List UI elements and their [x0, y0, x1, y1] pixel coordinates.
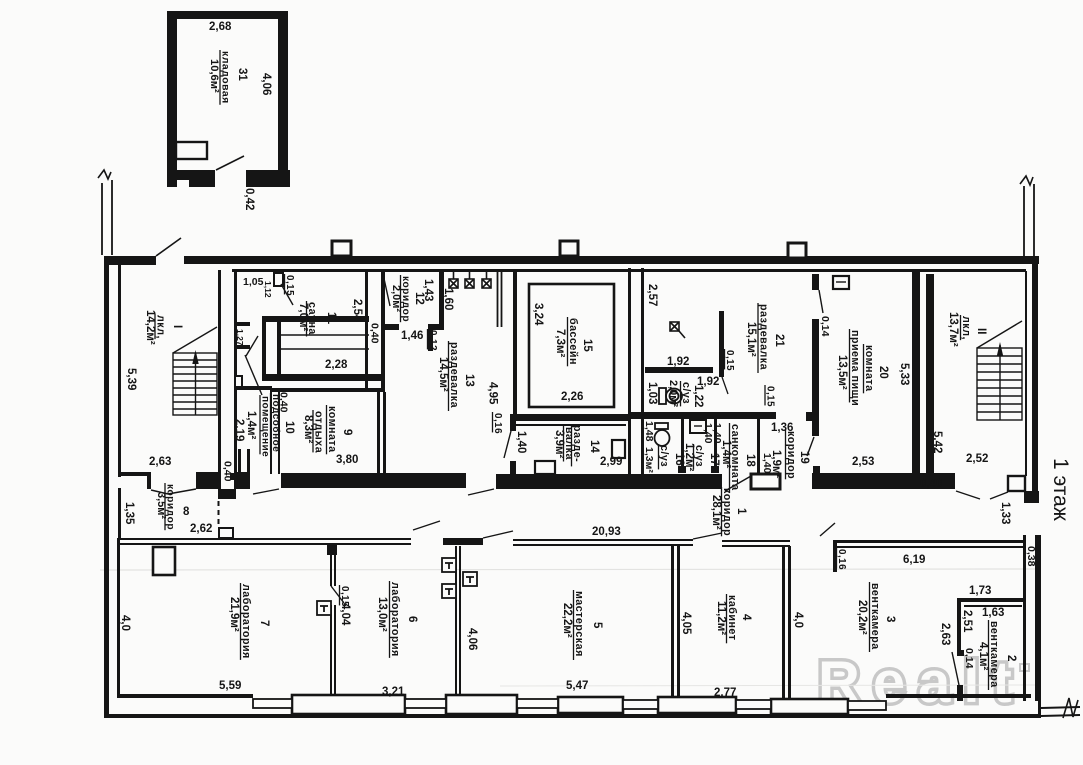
svg-text:0,12: 0,12 [427, 330, 438, 351]
svg-text:1,46: 1,46 [401, 330, 423, 342]
svg-text:6,19: 6,19 [903, 554, 925, 566]
svg-text:кладовая: кладовая [220, 51, 231, 104]
right wall entrance pier [1008, 476, 1025, 491]
sauna bottom thick wall [262, 374, 383, 381]
sink boxes [442, 558, 456, 572]
right wall corner block at entrance [1024, 491, 1039, 503]
svg-text:с/уз: с/уз [693, 445, 705, 467]
svg-text:17: 17 [708, 453, 720, 466]
svg-text:0,14: 0,14 [819, 316, 831, 337]
bottom wall windows [253, 699, 292, 708]
corridor 12 door leaf [383, 274, 390, 306]
svg-text:5: 5 [591, 622, 603, 629]
locker box in 21 [670, 322, 685, 338]
sauna door leaf [281, 284, 293, 305]
stairwell II left wall [926, 274, 934, 475]
svg-text:0,15: 0,15 [765, 386, 776, 407]
svg-text:1,22: 1,22 [692, 385, 704, 407]
main outer wall top band [184, 256, 1039, 264]
svg-text:8: 8 [183, 506, 190, 518]
wc 20 bottom wall [645, 367, 713, 373]
svg-text:1,36: 1,36 [771, 422, 793, 434]
svg-text:14,2м²: 14,2м² [144, 310, 156, 345]
svg-text:5,33: 5,33 [898, 363, 910, 385]
svg-text:II: II [975, 328, 987, 334]
scan artifact lines [100, 569, 1040, 570]
svg-text:1,4м²: 1,4м² [720, 440, 732, 468]
svg-text:0,40: 0,40 [278, 392, 290, 413]
svg-text:13,7м²: 13,7м² [947, 312, 959, 347]
svg-text:1,40: 1,40 [515, 431, 527, 453]
svg-text:13: 13 [463, 374, 475, 387]
vent 3 top wall [835, 540, 1023, 543]
duct lines right of room I wall [234, 322, 250, 326]
svg-text:4,06: 4,06 [466, 628, 478, 650]
sauna 11 left wall double [262, 316, 266, 381]
room 31 bottom-right wall block [246, 170, 290, 187]
san partitions [681, 419, 684, 467]
svg-text:лаборатория: лаборатория [240, 584, 252, 659]
svg-text:1,03: 1,03 [646, 382, 658, 404]
svg-text:мастерская: мастерская [573, 591, 585, 657]
svg-text:5,39: 5,39 [125, 368, 137, 390]
svg-text:I: I [171, 325, 183, 328]
corridor 1 door leaves [253, 489, 279, 494]
svg-text:22,2м²: 22,2м² [561, 603, 573, 638]
svg-text:5,59: 5,59 [219, 680, 241, 692]
svg-text:4,95: 4,95 [487, 382, 499, 405]
svg-text:3,80: 3,80 [336, 454, 358, 466]
svg-text:5,42: 5,42 [931, 431, 943, 453]
svg-text:4,0: 4,0 [792, 612, 804, 628]
main outer wall right (lower, vent chamber) double lines [1023, 535, 1026, 701]
lab 7 equipment square [153, 547, 175, 575]
room 14 inner top line [516, 424, 626, 426]
svg-text:0,15: 0,15 [724, 350, 735, 371]
svg-text:6: 6 [406, 616, 418, 622]
svg-text:3,5м²: 3,5м² [155, 492, 167, 519]
bottom wall piers [292, 695, 405, 714]
top wall chimney bumps [332, 241, 351, 256]
svg-text:3,24: 3,24 [532, 303, 544, 326]
svg-text:0,14: 0,14 [963, 648, 975, 669]
svg-text:2,63: 2,63 [149, 456, 171, 468]
main outer wall right (upper) [1032, 258, 1038, 491]
svg-text:21,9м²: 21,9м² [228, 597, 240, 632]
bottom inner wall line right part [886, 694, 1031, 698]
room 20 door block [833, 276, 849, 289]
svg-text:с/уз: с/уз [680, 382, 692, 404]
room I лкл right wall double [218, 270, 221, 489]
svg-text:4,05: 4,05 [680, 612, 692, 635]
wall between lab 6 and workshop 5 (double thin) [455, 546, 457, 694]
main inner line along top wall [232, 269, 1026, 272]
room 14 left pier [510, 461, 516, 474]
room 9 top wall [270, 388, 382, 392]
pool basin [529, 284, 614, 407]
toilet wc 16 [655, 423, 670, 446]
svg-text:10: 10 [283, 421, 295, 434]
room 31 door leaf [216, 156, 244, 170]
svg-text:1,73: 1,73 [969, 585, 991, 597]
room 14 left wall upper [510, 414, 516, 431]
partition 0,15 in dressing 21 [719, 311, 724, 377]
svg-text:20,93: 20,93 [592, 526, 621, 538]
svg-text:коридор: коридор [785, 431, 797, 479]
corridor 8 dashed door line [218, 501, 220, 528]
room 31 inner shelf rect [176, 142, 207, 159]
stairs II [977, 321, 1022, 420]
bottom-right wall stub with break mark [1041, 707, 1080, 708]
svg-text:1,3м²: 1,3м² [643, 447, 655, 473]
svg-text:1,92: 1,92 [667, 356, 689, 368]
svg-text:1,40: 1,40 [761, 453, 773, 474]
room 20 right wall [912, 272, 920, 475]
svg-text:2,53: 2,53 [852, 456, 874, 468]
central corridor double wall [628, 268, 631, 476]
corridor 19 walls [812, 274, 819, 290]
room 31 bottom-left wall block with notch [168, 170, 215, 187]
room 9 left wall double [270, 392, 272, 474]
svg-text:2,54: 2,54 [351, 299, 363, 322]
bottom outer wall line [104, 714, 1041, 718]
svg-text:лкл,: лкл, [960, 316, 972, 340]
svg-text:1,43: 1,43 [422, 279, 434, 301]
toilet wc 20 [659, 388, 682, 404]
svg-text:15: 15 [581, 339, 593, 352]
svg-text:2,51: 2,51 [961, 610, 973, 633]
room 14 door leaf [504, 431, 511, 458]
room I right wall notch [235, 376, 242, 389]
svg-text:1,27: 1,27 [235, 329, 245, 346]
room I door leaves (V) [151, 490, 168, 494]
svg-text:1,48: 1,48 [643, 421, 655, 442]
svg-text:бассейн: бассейн [567, 318, 579, 365]
svg-text:3: 3 [884, 616, 896, 622]
inner face of left wall (upper) [118, 265, 121, 477]
room 14 door block [612, 440, 625, 458]
svg-text:10,6м²: 10,6м² [208, 59, 220, 93]
svg-text:13,0м²: 13,0м² [376, 597, 388, 632]
svg-text:2,62: 2,62 [190, 523, 212, 535]
svg-text:2,0м²: 2,0м² [667, 380, 679, 407]
room 14 top wall band [510, 414, 630, 421]
lockers in dressing 13 [449, 272, 458, 288]
svg-text:2,52: 2,52 [966, 453, 988, 465]
room 20 bottom band [812, 473, 955, 489]
svg-text:4: 4 [740, 614, 752, 621]
svg-text:0,42: 0,42 [243, 188, 255, 210]
svg-text:раздевалка: раздевалка [758, 304, 770, 371]
room I bottom wall [118, 472, 151, 476]
svg-text:1,60: 1,60 [442, 288, 454, 310]
stairs I [173, 327, 217, 415]
corridor 12 wall stub 1,46 [383, 324, 399, 330]
room 14 centre pier [535, 461, 555, 474]
corridor 12 partition L-shape [439, 271, 444, 325]
svg-text:1,12: 1,12 [263, 281, 273, 298]
svg-text:18: 18 [744, 454, 756, 467]
svg-text:2,63: 2,63 [939, 623, 951, 645]
svg-text:1,05: 1,05 [243, 276, 264, 288]
svg-text:лаборатория: лаборатория [389, 582, 401, 657]
svg-text:4,04: 4,04 [339, 603, 351, 626]
svg-text:20: 20 [877, 366, 889, 379]
svg-text:3,21: 3,21 [382, 686, 405, 698]
pool room left wall [513, 272, 517, 414]
svg-text:4,1м²: 4,1м² [977, 642, 989, 670]
svg-text:2,28: 2,28 [325, 359, 348, 371]
main outer wall top-left corner piece [104, 256, 156, 265]
wall between rooms 4 and 3 double [782, 546, 785, 698]
svg-text:11: 11 [325, 312, 337, 325]
svg-text:комната: комната [863, 345, 875, 392]
sauna right 0,40 double wall [365, 270, 368, 392]
svg-text:1,63: 1,63 [982, 607, 1004, 619]
svg-text:с/уз: с/уз [658, 445, 670, 467]
svg-text:14: 14 [588, 440, 600, 453]
svg-text:13,5м²: 13,5м² [836, 355, 848, 390]
partition feet [678, 466, 686, 473]
svg-text:приема пищи: приема пищи [849, 330, 861, 406]
svg-text:1,33: 1,33 [999, 502, 1011, 524]
svg-text:0,40: 0,40 [920, 478, 942, 490]
svg-text:1,4м²: 1,4м² [245, 411, 257, 439]
svg-text:0,16: 0,16 [492, 413, 503, 434]
main outer wall left [104, 256, 109, 718]
svg-text:2: 2 [1005, 655, 1017, 661]
wall between rooms 5 and 4 double [671, 546, 674, 698]
svg-text:2,26: 2,26 [561, 391, 583, 403]
svg-text:2,77: 2,77 [714, 687, 736, 699]
partition stub right of 13 [497, 272, 499, 327]
sauna door pier [274, 273, 283, 286]
svg-text:0,15: 0,15 [284, 275, 295, 296]
room 9 right wall double [377, 392, 380, 474]
T-cap wall [443, 538, 483, 545]
niche walls right of room I [238, 449, 241, 472]
svg-text:2,68: 2,68 [209, 21, 232, 33]
room 10 door leaves from room I [246, 336, 258, 356]
svg-text:20,2м²: 20,2м² [856, 600, 868, 635]
inner face of right wall (upper) [1025, 271, 1027, 476]
room 10 top wall [236, 386, 272, 390]
svg-text:0,38: 0,38 [1025, 546, 1037, 567]
room 31 кладовая outer walls [167, 11, 288, 19]
wall between labs 7 and 6 (double thin) [327, 545, 337, 555]
svg-text:4,0: 4,0 [119, 615, 131, 631]
svg-text:помещение: помещение [260, 396, 271, 457]
svg-text:8,3м²: 8,3м² [302, 415, 314, 443]
svg-text:11,2м²: 11,2м² [715, 601, 727, 635]
sauna benches [281, 334, 369, 336]
bottom inner wall line left part [118, 694, 253, 698]
svg-text:2,99: 2,99 [600, 456, 622, 468]
svg-text:7,0м²: 7,0м² [297, 303, 309, 331]
svg-text:7: 7 [258, 620, 270, 626]
wall junction blocks at corridor 8 [196, 472, 218, 489]
svg-text:1 этаж: 1 этаж [1049, 458, 1072, 521]
inner face of left wall (lower, lab 7) [117, 538, 120, 698]
dressing 21 bottom wall [628, 412, 776, 419]
svg-text:31: 31 [236, 68, 248, 81]
break wall left [101, 183, 103, 255]
svg-text:венткамера: венткамера [869, 583, 881, 650]
entrance door leaf top-left [156, 238, 181, 256]
svg-text:14,5м²: 14,5м² [437, 357, 449, 392]
svg-text:3,9м²: 3,9м² [553, 430, 565, 458]
svg-text:2,0м²: 2,0м² [390, 285, 402, 312]
svg-text:28,1м²: 28,1м² [710, 495, 722, 530]
door block in san wall [690, 420, 706, 433]
svg-text:2,57: 2,57 [646, 284, 658, 306]
svg-text:1,35: 1,35 [123, 502, 135, 525]
svg-text:комната: комната [326, 406, 338, 453]
svg-text:5,47: 5,47 [566, 680, 588, 692]
svg-text:19: 19 [798, 451, 810, 464]
sauna small mark [275, 375, 282, 377]
svg-text:4,06: 4,06 [260, 73, 272, 95]
svg-text:7,3м²: 7,3м² [554, 329, 566, 357]
vent 2 walls [957, 598, 1023, 602]
svg-text:1,40: 1,40 [711, 423, 723, 444]
svg-text:21: 21 [773, 334, 785, 347]
svg-text:0,40: 0,40 [369, 323, 381, 344]
watermark Realt [818, 650, 1029, 715]
corridor 1 top thick wall segments [230, 473, 250, 488]
corridor 1 bottom wall segments (double thin) [118, 538, 411, 540]
svg-text:15,1м²: 15,1м² [745, 322, 757, 357]
svg-text:0,16: 0,16 [836, 549, 847, 570]
svg-text:1: 1 [735, 508, 747, 515]
svg-text:2,19: 2,19 [233, 419, 245, 441]
svg-text:9: 9 [341, 429, 353, 435]
entrance door leaves right [956, 491, 980, 499]
break wall right [1023, 186, 1025, 259]
sauna 11 top wall [262, 316, 369, 322]
